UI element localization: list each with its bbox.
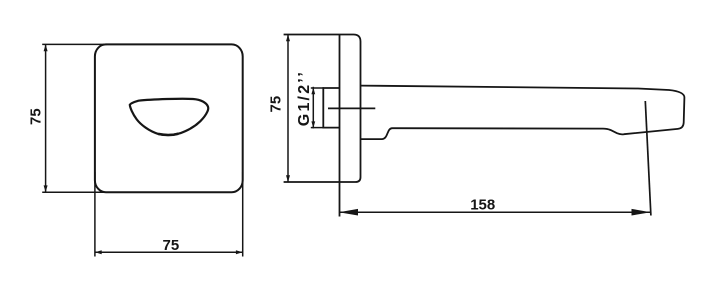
arrowhead down <box>44 185 48 192</box>
arrowhead left <box>339 209 358 216</box>
arrowhead right <box>236 250 243 254</box>
arrowhead up <box>44 44 48 51</box>
spout tip outlet / 158 extension line <box>645 101 651 216</box>
arrowhead down <box>286 175 290 182</box>
G1/2 extension ticks <box>311 87 324 89</box>
dimension 75 (front height): dimension line <box>45 44 47 192</box>
svg-text:158: 158 <box>470 196 495 213</box>
arrowhead up <box>311 88 315 95</box>
dimension 75 (front width): extension lines <box>94 172 96 257</box>
arrowhead left <box>95 250 102 254</box>
svg-text:75: 75 <box>163 237 180 254</box>
svg-text:G1/2’’: G1/2’’ <box>296 72 313 126</box>
svg-text:75: 75 <box>267 96 284 113</box>
dimension 75 (front height): extension lines <box>42 43 107 45</box>
svg-text:75: 75 <box>28 108 45 125</box>
arrowhead right <box>632 209 651 216</box>
dimension 75 (front width): dimension line <box>95 251 243 253</box>
spout body (side profile) <box>361 86 685 140</box>
front view: square escutcheon plate <box>95 44 243 192</box>
arrowhead down <box>311 121 315 128</box>
arrowhead up <box>286 35 290 42</box>
thread centerline <box>328 107 375 109</box>
side view: plate back edge / 158 extension line <box>339 35 341 217</box>
dimension 158: dimension line <box>339 211 651 213</box>
G1/2 dimension line <box>312 87 314 129</box>
G1/2 inlet connector rectangle <box>323 88 339 128</box>
dimension 75 (side height): dimension line <box>287 35 289 183</box>
spout opening bottom lip <box>158 134 178 135</box>
side view: wall plate outline <box>284 35 361 183</box>
spout opening (front) <box>130 99 208 135</box>
